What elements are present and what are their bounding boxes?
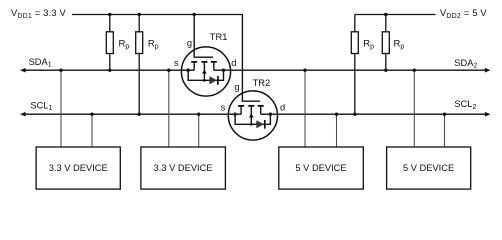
junction SDA1/device1 — [59, 69, 62, 72]
svg-text:SDA1: SDA1 — [29, 57, 52, 69]
TR1 body arrow (points up) — [202, 70, 207, 74]
TR2 body contact stroke — [250, 106, 252, 124]
junction SCL2/device4 — [443, 113, 446, 116]
svg-text:5 V DEVICE: 5 V DEVICE — [403, 163, 454, 173]
arrowhead SDA2 right — [485, 68, 491, 73]
TR1 source line — [181, 69, 194, 71]
TR2 source line — [228, 113, 241, 115]
wire resistor Rp1 top lead — [109, 15, 111, 32]
wire device2 SDA drop — [168, 70, 170, 147]
junction VDD2/Rp4 — [384, 13, 387, 16]
resistor Rp4 body — [382, 32, 389, 54]
svg-text:g: g — [187, 38, 192, 48]
junction VDD1/TR1 gate — [193, 13, 196, 16]
wire SCL bus left segment — [24, 113, 229, 115]
junction SDA2/device3 — [303, 69, 306, 72]
svg-text:s: s — [221, 102, 226, 112]
svg-text:VDD1 = 3.3 V: VDD1 = 3.3 V — [11, 8, 67, 20]
junction SDA1/Rp1 — [108, 69, 111, 72]
wire resistor Rp4 bottom lead to SDA2 — [385, 54, 387, 71]
TR2 body arrow (points up) — [249, 114, 254, 118]
TR2 body diode triangle — [256, 120, 264, 128]
svg-text:SCL2: SCL2 — [454, 99, 476, 111]
svg-text:Rp: Rp — [394, 39, 405, 51]
TR1 junction source/body — [187, 69, 190, 72]
device box 2 (3.3 V DEVICE) — [141, 147, 226, 189]
TR1 body wire — [188, 70, 223, 80]
device box 1 (3.3 V DEVICE) — [36, 147, 120, 189]
svg-text:SCL1: SCL1 — [30, 100, 52, 112]
wire SCL bus right segment — [278, 113, 487, 115]
TR1 drain line — [214, 69, 231, 71]
TR2 junction drain/diode — [269, 113, 272, 116]
svg-text:3.3 V DEVICE: 3.3 V DEVICE — [49, 163, 108, 173]
wire resistor Rp2 top lead — [138, 15, 140, 32]
junction SCL2/Rp3 — [353, 113, 356, 116]
svg-text:s: s — [174, 58, 179, 68]
junction VDD1/Rp1 — [108, 13, 111, 16]
wire device3 SDA drop — [304, 70, 306, 147]
TR2 junction source/body — [233, 113, 236, 116]
junction SCL1/device1 — [90, 113, 93, 116]
arrowhead SCL2 right — [485, 112, 491, 117]
svg-text:Rp: Rp — [148, 39, 159, 51]
TR1 body contact stroke — [203, 62, 205, 80]
device box 3 (5 V DEVICE) — [279, 147, 364, 189]
junction SCL1/device2 — [197, 113, 200, 116]
device box 4 (5 V DEVICE) — [387, 147, 471, 189]
wire device1 SCL drop — [91, 114, 93, 147]
TR2 channel cap body — [248, 105, 254, 107]
svg-text:VDD2 = 5 V: VDD2 = 5 V — [440, 8, 487, 20]
svg-text:TR1: TR1 — [210, 32, 228, 42]
resistor Rp3 body — [351, 32, 358, 54]
wire device2 SCL drop — [198, 114, 200, 147]
junction SCL2/device3 — [335, 113, 338, 116]
transistor TR1 (MOSFET) — [181, 15, 230, 97]
svg-text:SDA2: SDA2 — [454, 58, 477, 70]
svg-text:d: d — [280, 102, 285, 112]
TR2 body diode cathode bar — [264, 120, 266, 129]
TR1 gate wire from VDD1 rail — [194, 15, 213, 58]
resistor Rp2 body — [136, 32, 143, 54]
svg-text:3.3 V DEVICE: 3.3 V DEVICE — [154, 163, 213, 173]
junction VDD1/Rp2 — [138, 13, 141, 16]
TR1 body diode cathode bar — [217, 76, 219, 85]
wire VDD1 rail — [72, 14, 243, 16]
TR2 source contact stroke — [240, 106, 242, 114]
svg-text:Rp: Rp — [363, 39, 374, 51]
TR1 channel cap source — [191, 61, 197, 63]
TR2 channel cap source — [238, 105, 244, 107]
wire resistor Rp3 top lead — [354, 15, 356, 32]
TR2 drain line — [261, 113, 278, 115]
junction SDA2/Rp4 — [384, 69, 387, 72]
resistor Rp1 body — [106, 32, 113, 54]
wire resistor Rp1 bottom lead to SDA1 — [109, 54, 111, 71]
junction SCL1/Rp2 — [138, 113, 141, 116]
TR1 junction drain/diode — [222, 69, 225, 72]
wire resistor Rp3 bottom lead to SCL2 (crosses SDA) — [354, 54, 356, 115]
TR1 source contact stroke — [193, 62, 195, 70]
svg-text:5 V DEVICE: 5 V DEVICE — [295, 163, 346, 173]
TR1 junction body contact — [203, 79, 206, 82]
wire VDD2 rail — [355, 14, 436, 16]
TR2 junction body contact — [250, 123, 253, 126]
wire SDA bus left segment — [24, 69, 182, 71]
TR2 drain contact stroke — [260, 106, 262, 114]
arrowhead SDA1 left — [20, 68, 26, 73]
TR2 channel cap drain — [258, 105, 264, 107]
wire device3 SCL drop — [336, 114, 338, 147]
wire device4 SDA drop — [413, 70, 415, 147]
TR1 channel cap body — [201, 61, 207, 63]
wire device4 SCL drop — [444, 114, 446, 147]
transistor TR2 (MOSFET) — [228, 15, 277, 141]
svg-text:Rp: Rp — [119, 39, 130, 51]
TR2 body wire — [235, 114, 270, 124]
svg-text:TR2: TR2 — [253, 78, 271, 88]
wire resistor Rp2 bottom lead to SCL1 (crosses SDA) — [138, 54, 140, 115]
wire SDA bus right segment — [231, 69, 487, 71]
TR2 gate wire from VDD1 rail — [242, 15, 260, 102]
svg-text:g: g — [234, 82, 239, 92]
wire resistor Rp4 top lead — [385, 15, 387, 32]
junction SDA2/device4 — [413, 69, 416, 72]
TR1 drain contact stroke — [213, 62, 215, 70]
svg-text:d: d — [231, 58, 236, 68]
TR1 channel cap drain — [211, 61, 217, 63]
arrowhead SCL1 left — [20, 112, 26, 117]
TR1 body diode triangle — [209, 76, 217, 84]
wire device1 SDA drop — [60, 70, 62, 147]
junction SDA1/device2 — [167, 69, 170, 72]
